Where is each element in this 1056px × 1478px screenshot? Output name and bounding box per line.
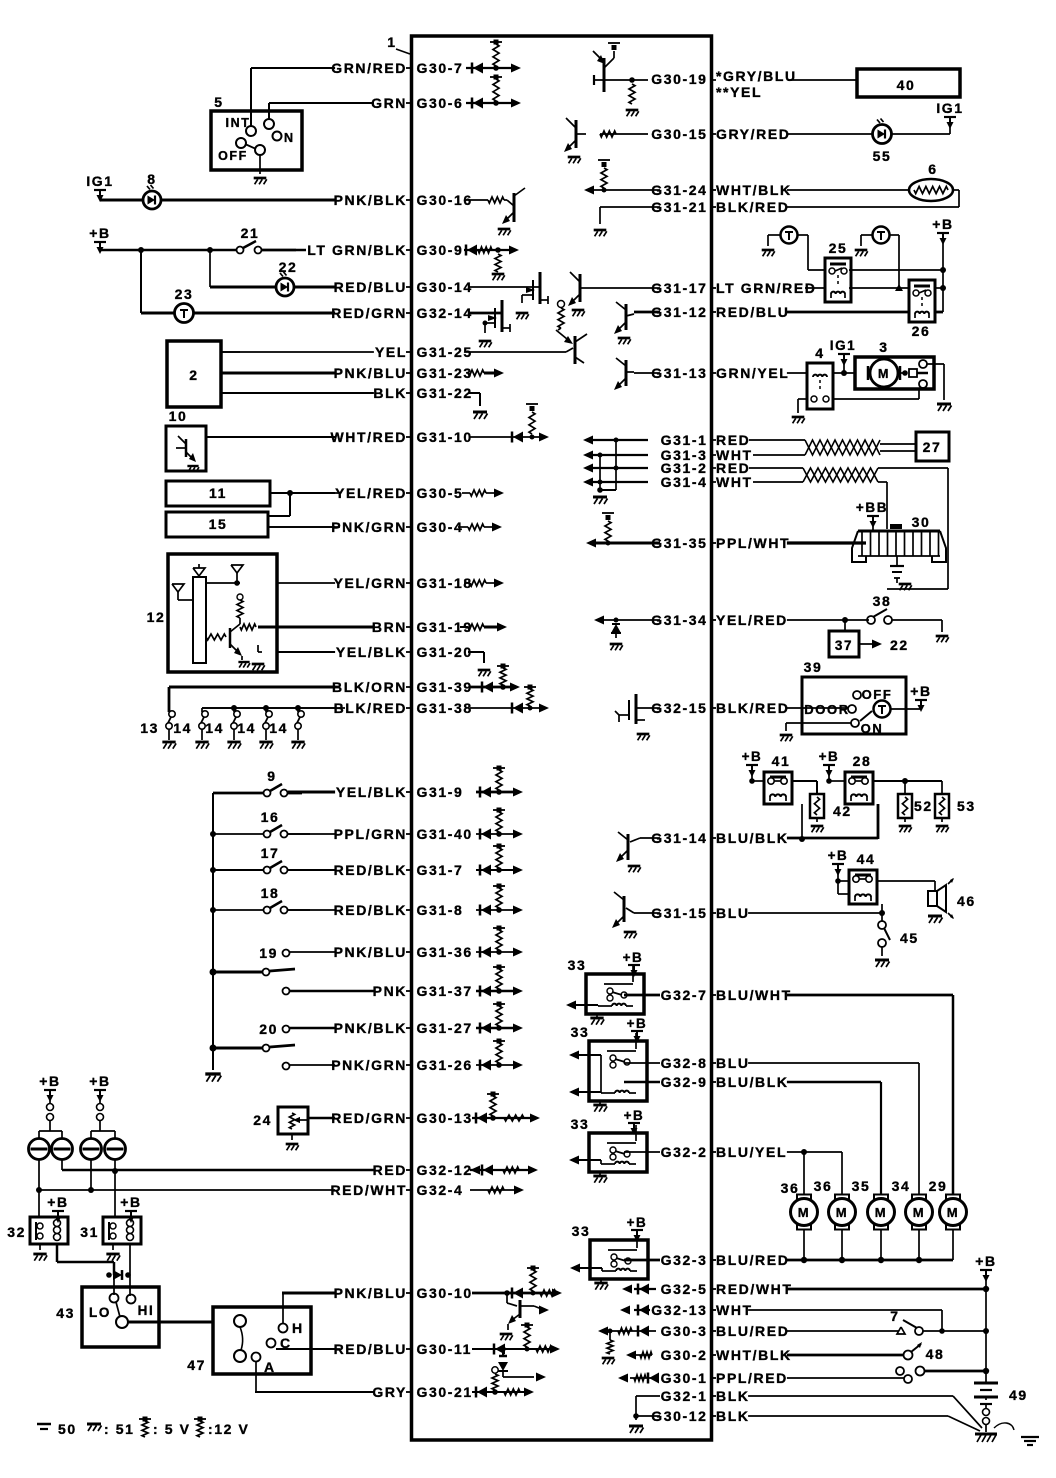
svg-text:LO: LO — [89, 1305, 111, 1320]
svg-text:18: 18 — [261, 885, 280, 901]
svg-text:G30-4: G30-4 — [417, 519, 464, 535]
svg-text:14: 14 — [269, 720, 288, 736]
svg-text:+B: +B — [742, 749, 763, 764]
svg-text:G30-5: G30-5 — [417, 485, 464, 501]
svg-text:43: 43 — [56, 1305, 75, 1321]
svg-text:WHT/BLK: WHT/BLK — [716, 182, 792, 198]
svg-text:G32-2: G32-2 — [661, 1144, 708, 1160]
svg-text:G30-15: G30-15 — [651, 126, 707, 142]
svg-text:G32-13: G32-13 — [651, 1302, 707, 1318]
svg-text:BLU/RED: BLU/RED — [716, 1323, 789, 1339]
svg-text:IG1: IG1 — [830, 338, 857, 353]
svg-text:: 5 V: : 5 V — [153, 1421, 191, 1437]
svg-text:+B: +B — [623, 950, 644, 965]
svg-text:14: 14 — [237, 720, 256, 736]
svg-text:M: M — [913, 1205, 925, 1220]
svg-text:24: 24 — [253, 1112, 272, 1128]
svg-text:IG1: IG1 — [936, 100, 963, 116]
svg-text:1: 1 — [387, 34, 396, 50]
svg-text:G31-39: G31-39 — [417, 679, 473, 695]
svg-text:33: 33 — [568, 957, 587, 973]
svg-text:7: 7 — [890, 1308, 899, 1324]
svg-text:RED/BLU: RED/BLU — [716, 304, 789, 320]
svg-text:BLK/RED: BLK/RED — [716, 700, 789, 716]
svg-text:YEL: YEL — [375, 344, 407, 360]
svg-text:G30-11: G30-11 — [417, 1341, 473, 1357]
svg-text:+B: +B — [89, 1073, 111, 1089]
svg-text:WHT/BLK: WHT/BLK — [716, 1347, 792, 1363]
svg-text:39: 39 — [804, 659, 823, 675]
svg-text:GRN/RED: GRN/RED — [331, 60, 407, 76]
svg-text:PNK/BLU: PNK/BLU — [334, 1285, 407, 1301]
svg-text:BLK/ORN: BLK/ORN — [332, 679, 407, 695]
svg-text:WHT/RED: WHT/RED — [330, 429, 407, 445]
svg-text:14: 14 — [173, 720, 192, 736]
svg-text:G31-38: G31-38 — [417, 700, 473, 716]
svg-text:G32-7: G32-7 — [661, 987, 708, 1003]
svg-text:M: M — [798, 1205, 810, 1220]
svg-text:55: 55 — [873, 148, 892, 164]
svg-text:YEL/GRN: YEL/GRN — [334, 575, 407, 591]
svg-text:RED/GRN: RED/GRN — [331, 305, 407, 321]
svg-text:+B: +B — [975, 1253, 997, 1269]
svg-text:+B: +B — [89, 225, 111, 241]
svg-text:17: 17 — [261, 845, 280, 861]
svg-text:+B: +B — [910, 683, 932, 699]
svg-text:PNK: PNK — [373, 983, 407, 999]
svg-text:G31-37: G31-37 — [417, 983, 473, 999]
svg-text:3: 3 — [879, 339, 888, 355]
svg-text:6: 6 — [928, 161, 937, 177]
svg-text:20: 20 — [259, 1021, 278, 1037]
svg-text:BLU/RED: BLU/RED — [716, 1252, 789, 1268]
svg-text:16: 16 — [261, 809, 280, 825]
svg-text:G32-4: G32-4 — [417, 1182, 464, 1198]
svg-text:G31-26: G31-26 — [417, 1057, 473, 1073]
svg-text:G31-22: G31-22 — [417, 385, 473, 401]
svg-text:M: M — [875, 1205, 887, 1220]
svg-text:PNK/BLU: PNK/BLU — [334, 365, 407, 381]
svg-text:GRN: GRN — [371, 95, 407, 111]
svg-text:G31-9: G31-9 — [417, 784, 464, 800]
svg-text:+B: +B — [627, 1016, 648, 1031]
svg-text:G30-10: G30-10 — [417, 1285, 473, 1301]
svg-text:+B: +B — [828, 848, 849, 863]
svg-text:: 51: : 51 — [104, 1421, 135, 1437]
svg-text:46: 46 — [957, 893, 976, 909]
svg-text:+B: +B — [120, 1194, 142, 1210]
svg-text:+B: +B — [627, 1215, 648, 1230]
svg-text:RED: RED — [373, 1162, 407, 1178]
svg-text:BLK: BLK — [716, 1388, 750, 1404]
svg-text:GRY: GRY — [372, 1384, 407, 1400]
svg-text:44: 44 — [857, 851, 876, 867]
svg-text::12 V: :12 V — [208, 1421, 249, 1437]
svg-text:G30-1: G30-1 — [661, 1370, 708, 1386]
svg-text:50: 50 — [58, 1421, 77, 1437]
svg-text:G30-2: G30-2 — [661, 1347, 708, 1363]
svg-text:+B: +B — [47, 1194, 69, 1210]
svg-text:G30-9: G30-9 — [417, 242, 464, 258]
svg-text:30: 30 — [912, 514, 931, 530]
svg-text:BLK/RED: BLK/RED — [716, 199, 789, 215]
svg-text:27: 27 — [923, 439, 942, 455]
svg-text:G32-5: G32-5 — [661, 1281, 708, 1297]
svg-text:HI: HI — [138, 1303, 155, 1318]
svg-text:RED/GRN: RED/GRN — [331, 1110, 407, 1126]
svg-text:RED/BLU: RED/BLU — [334, 279, 407, 295]
svg-text:40: 40 — [897, 77, 916, 93]
svg-text:IG1: IG1 — [86, 173, 113, 189]
svg-text:+B: +B — [624, 1108, 645, 1123]
svg-text:YEL/RED: YEL/RED — [716, 612, 788, 628]
svg-text:G31-8: G31-8 — [417, 902, 464, 918]
svg-text:PPL/GRN: PPL/GRN — [334, 826, 407, 842]
svg-text:G30-21: G30-21 — [417, 1384, 473, 1400]
svg-text:28: 28 — [853, 753, 872, 769]
svg-text:47: 47 — [187, 1357, 206, 1373]
svg-text:45: 45 — [900, 930, 919, 946]
svg-text:RED/WHT: RED/WHT — [716, 1281, 793, 1297]
svg-text:37: 37 — [835, 638, 853, 653]
svg-text:LT GRN/BLK: LT GRN/BLK — [307, 242, 407, 258]
svg-text:OFF: OFF — [218, 149, 248, 163]
svg-text:G31-27: G31-27 — [417, 1020, 473, 1036]
svg-text:25: 25 — [829, 240, 848, 256]
svg-text:9: 9 — [267, 768, 276, 784]
svg-text:GRN/YEL: GRN/YEL — [716, 365, 789, 381]
svg-text:5: 5 — [214, 94, 223, 110]
svg-text:15: 15 — [209, 516, 228, 532]
svg-text:53: 53 — [957, 798, 976, 814]
svg-text:G31-10: G31-10 — [417, 429, 473, 445]
svg-text:G31-36: G31-36 — [417, 944, 473, 960]
svg-text:48: 48 — [926, 1346, 945, 1362]
svg-text:35: 35 — [852, 1178, 871, 1194]
svg-text:G32-12: G32-12 — [417, 1162, 473, 1178]
svg-text:RED/BLK: RED/BLK — [334, 862, 407, 878]
svg-text:M: M — [836, 1205, 848, 1220]
svg-text:ON: ON — [861, 721, 884, 736]
svg-text:+B: +B — [819, 749, 840, 764]
svg-text:2: 2 — [189, 367, 198, 383]
svg-text:G31-25: G31-25 — [417, 344, 473, 360]
svg-text:10: 10 — [169, 408, 188, 424]
svg-text:G30-19: G30-19 — [651, 71, 707, 87]
svg-text:G32-3: G32-3 — [661, 1252, 708, 1268]
svg-text:RED/BLU: RED/BLU — [334, 1341, 407, 1357]
svg-text:G32-1: G32-1 — [661, 1388, 708, 1404]
svg-text:36: 36 — [814, 1178, 833, 1194]
svg-text:PNK/BLK: PNK/BLK — [334, 192, 407, 208]
svg-text:33: 33 — [571, 1116, 590, 1132]
svg-text:H: H — [292, 1320, 304, 1336]
svg-text:49: 49 — [1009, 1387, 1028, 1403]
svg-text:38: 38 — [873, 593, 892, 609]
svg-text:19: 19 — [259, 945, 278, 961]
svg-text:14: 14 — [205, 720, 224, 736]
svg-text:21: 21 — [241, 225, 260, 241]
svg-text:PNK/GRN: PNK/GRN — [331, 1057, 407, 1073]
svg-text:22: 22 — [279, 259, 298, 275]
svg-text:23: 23 — [175, 286, 194, 302]
svg-text:PNK/BLK: PNK/BLK — [334, 1020, 407, 1036]
svg-text:G31-7: G31-7 — [417, 862, 464, 878]
svg-text:BLU: BLU — [716, 1055, 750, 1071]
svg-text:RED/BLK: RED/BLK — [334, 902, 407, 918]
svg-text:G31-4: G31-4 — [661, 474, 708, 490]
svg-text:G31-40: G31-40 — [417, 826, 473, 842]
svg-text:A: A — [264, 1359, 276, 1375]
svg-text:BLK: BLK — [716, 1408, 750, 1424]
svg-text:G30-16: G30-16 — [417, 192, 473, 208]
svg-text:RED: RED — [716, 432, 750, 448]
svg-text:13: 13 — [140, 720, 159, 736]
svg-text:LT GRN/RED: LT GRN/RED — [716, 280, 817, 296]
svg-text:G30-3: G30-3 — [661, 1323, 708, 1339]
svg-text:G32-9: G32-9 — [661, 1074, 708, 1090]
svg-text:RED/WHT: RED/WHT — [330, 1182, 407, 1198]
svg-text:22: 22 — [890, 637, 909, 653]
svg-text:12: 12 — [147, 609, 166, 625]
svg-text:G31-23: G31-23 — [417, 365, 473, 381]
svg-text:BLU/BLK: BLU/BLK — [716, 1074, 789, 1090]
svg-text:BLU/WHT: BLU/WHT — [716, 987, 792, 1003]
svg-text:11: 11 — [209, 485, 227, 501]
svg-text:*GRY/BLU: *GRY/BLU — [716, 68, 797, 84]
svg-text:4: 4 — [815, 345, 824, 361]
svg-text:BLU/YEL: BLU/YEL — [716, 1144, 787, 1160]
svg-text:32: 32 — [7, 1224, 26, 1240]
svg-text:33: 33 — [571, 1024, 590, 1040]
svg-text:+B: +B — [932, 216, 954, 232]
svg-text:PPL/RED: PPL/RED — [716, 1370, 788, 1386]
svg-text:G32-14: G32-14 — [417, 305, 473, 321]
svg-text:33: 33 — [572, 1223, 591, 1239]
svg-text:YEL/BLK: YEL/BLK — [336, 644, 407, 660]
svg-text:BLU/BLK: BLU/BLK — [716, 830, 789, 846]
svg-text:26: 26 — [912, 323, 931, 339]
svg-text:+B: +B — [39, 1073, 61, 1089]
svg-text:52: 52 — [914, 798, 933, 814]
svg-text:YEL/BLK: YEL/BLK — [336, 784, 407, 800]
svg-text:BLU: BLU — [716, 905, 750, 921]
svg-text:41: 41 — [772, 753, 791, 769]
svg-text:31: 31 — [80, 1224, 99, 1240]
svg-text:8: 8 — [147, 171, 156, 187]
svg-text:BRN: BRN — [372, 619, 407, 635]
svg-text:34: 34 — [892, 1178, 911, 1194]
svg-text:WHT: WHT — [716, 1302, 753, 1318]
svg-text:WHT: WHT — [716, 474, 753, 490]
svg-text:BLK: BLK — [373, 385, 407, 401]
svg-text:PNK/GRN: PNK/GRN — [331, 519, 407, 535]
svg-text:G30-7: G30-7 — [417, 60, 464, 76]
svg-text:G31-1: G31-1 — [661, 432, 708, 448]
svg-text:DOOR: DOOR — [804, 702, 849, 717]
svg-text:29: 29 — [929, 1178, 948, 1194]
svg-text:OFF: OFF — [862, 687, 893, 702]
svg-text:YEL/RED: YEL/RED — [335, 485, 407, 501]
svg-text:G32-8: G32-8 — [661, 1055, 708, 1071]
svg-text:+BB: +BB — [856, 500, 888, 515]
svg-text:PPL/WHT: PPL/WHT — [716, 535, 790, 551]
svg-text:**YEL: **YEL — [716, 84, 762, 100]
svg-text:M: M — [947, 1205, 959, 1220]
svg-text:N: N — [284, 131, 295, 145]
svg-text:G30-6: G30-6 — [417, 95, 464, 111]
svg-text:M: M — [878, 367, 890, 381]
svg-text:G31-20: G31-20 — [417, 644, 473, 660]
svg-text:PNK/BLU: PNK/BLU — [334, 944, 407, 960]
svg-text:GRY/RED: GRY/RED — [716, 126, 790, 142]
svg-text:G30-13: G30-13 — [417, 1110, 473, 1126]
svg-text:G30-14: G30-14 — [417, 279, 473, 295]
